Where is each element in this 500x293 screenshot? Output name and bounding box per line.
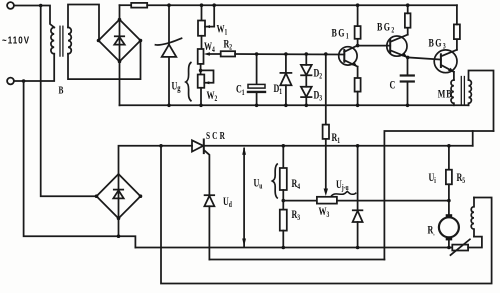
potentiometer W4 (198, 49, 204, 64)
zener diode DW (168, 5, 170, 44)
W4 wiper arrow to R2 (209, 53, 221, 55)
wire T2 to transformer primary bottom (14, 54, 54, 81)
R1 lead to W3 wiper arrow (325, 139, 327, 190)
transistor BG3 (434, 50, 457, 73)
BG1 collector resistor (357, 39, 359, 46)
BG2 collector resistor (407, 28, 409, 35)
brace under Uj-u (331, 191, 356, 196)
wire secondary bottom to bridge QL1 right vertex (68, 41, 141, 80)
wire QL1 top vertex to top supply rail (119, 5, 121, 19)
starting rheostat (452, 245, 468, 251)
resistor R4 (282, 146, 284, 168)
bridge QL1 internal diode (119, 20, 121, 62)
wire BG1 collector to BG2 base (358, 45, 391, 47)
resistor (unlabeled, top rail) (131, 3, 147, 8)
capacitor C (407, 57, 409, 75)
potentiometer W1 (201, 5, 203, 20)
SCR cathode rail (204, 145, 473, 147)
voltage arrow Ud (243, 149, 245, 247)
transistor BG1 (339, 47, 357, 65)
MB secondary (469, 80, 472, 105)
diode D3 (305, 75, 307, 86)
wire secondary top to bridge QL1 left vertex (68, 5, 99, 41)
gate diode D4 (205, 194, 215, 196)
transformer B secondary winding (68, 27, 71, 53)
gate return rail (209, 259, 384, 261)
wire gate return up to feedback node (384, 131, 493, 260)
svg-text:MB: MB (438, 88, 453, 101)
resistor R2 (221, 51, 235, 56)
lower common rail (135, 247, 452, 249)
wire tap down to outer bottom rail (161, 146, 492, 284)
node R4/R3 junction (282, 190, 284, 210)
bridge rectifier QL1 (top) (99, 20, 141, 62)
resistor R1 (325, 54, 327, 125)
wire QL1 bottom vertex to common rail (119, 62, 121, 106)
wire B2 down and right to bottom AC rail (24, 81, 136, 248)
wire feedback node down to SCR cathode rail (472, 131, 474, 146)
wire MB secondary top to right loop (469, 71, 494, 132)
SCR anode rail (119, 146, 193, 174)
W2 wiper to its top terminal (201, 70, 214, 82)
potentiometer W2 (198, 75, 205, 88)
wire R2 to BG1 base (235, 53, 344, 56)
motor armature M (446, 214, 453, 218)
wire QL2 bottom vertex to AC rail (118, 218, 120, 236)
wire BG2 emitter to BG3 base (408, 57, 441, 59)
thyristor SCR (192, 140, 203, 151)
node B2 (junction on T2 wire) (22, 79, 26, 83)
terminal T1 (top left) (7, 2, 14, 9)
bridge rectifier QL2 (lower) (97, 174, 141, 218)
diode D2 (305, 54, 307, 65)
svg-text:C: C (390, 79, 396, 92)
diode D1 (285, 54, 287, 73)
svg-text:~110V: ~110V (2, 35, 30, 46)
svg-text:Ug: Ug (172, 80, 182, 93)
svg-text:B: B (59, 84, 64, 96)
node A (junction on T1 wire) (39, 4, 43, 8)
capacitor C1 (256, 54, 258, 84)
terminal T2 (lower left) (7, 78, 14, 85)
node BG2 emitter (406, 56, 410, 60)
wire W2 to common rail (200, 88, 202, 106)
wire W1 to W4 (201, 36, 203, 49)
wire BG3 emitter to MB primary (453, 72, 455, 80)
transformer B core (59, 26, 61, 56)
wire W4 to W2 (200, 64, 202, 75)
BG3 collector resistor (456, 39, 458, 50)
brace for Ug (186, 62, 192, 101)
svg-text:SCR: SCR (206, 130, 227, 142)
wire T1 to transformer primary top (14, 6, 54, 28)
node (long feedback wire tap) (159, 144, 163, 148)
potentiometer W3 (283, 200, 317, 202)
common rail (mid) (120, 104, 469, 106)
transistor BG2 (387, 36, 407, 56)
brace for Uu (272, 164, 278, 199)
diode D5 (ramp diode) (357, 146, 359, 211)
resistor R5 (448, 146, 450, 170)
MB core (460, 77, 462, 105)
resistor R3 (280, 210, 287, 231)
bridge QL1 vertex dots (97, 39, 101, 43)
W1 wiper to top rail (205, 5, 214, 26)
field winding LF (471, 198, 474, 237)
wire QL2 right vertex (unused stub) (140, 195, 142, 197)
transformer B primary winding (51, 27, 54, 53)
SCR gate lead (205, 151, 210, 196)
BG1 emitter resistor (357, 67, 359, 78)
pulse transformer MB primary (451, 80, 454, 105)
wire A down to lower-left, then to bridge QL2 left vertex (41, 6, 97, 197)
top supply rail (120, 4, 132, 6)
